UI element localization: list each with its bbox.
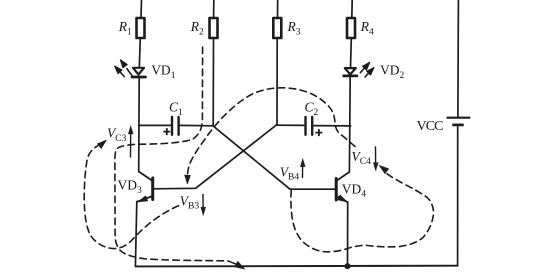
arrow VB4: [302, 164, 304, 178]
resistor R4: [347, 18, 355, 38]
resistor R1: [137, 18, 145, 38]
wire VD4 emitter to bottom rail: [347, 202, 349, 266]
wire R4 to VD2: [350, 38, 353, 68]
battery VCC: [447, 117, 471, 119]
wire bottom rail: [135, 265, 457, 268]
wire branch2 top stub: [213, 0, 215, 18]
LED VD2: [344, 62, 374, 77]
dashed loop inner-left (from below R2 around to bottom rail): [115, 47, 228, 261]
dashed loop outer-left (from VB3 around left side up to VC3): [84, 146, 178, 249]
capacitor C1: [139, 124, 171, 126]
wire VD2 to collector bend: [348, 76, 351, 172]
dashed loop right (from VB4 base around bottom up to VC4): [291, 174, 434, 252]
wire VD3 emitter to bottom rail: [135, 202, 136, 267]
arrow VB3: [202, 195, 204, 210]
resistor R2: [210, 18, 218, 38]
transistor VD4: [336, 172, 349, 202]
wire VCC branch top stub: [457, 0, 460, 117]
junction dot: [345, 263, 351, 269]
wire branch1 top stub: [140, 0, 143, 18]
wire battery to bottom rail: [457, 125, 459, 266]
wire R2 down to C1 node: [212, 38, 214, 126]
wire branch3 top stub: [277, 0, 279, 18]
resistor R3: [273, 18, 281, 38]
svg-text:VCC: VCC: [417, 119, 444, 134]
label plus C1: [163, 128, 170, 135]
wire cross-couple C1 node to VD4 base: [213, 126, 335, 189]
wire R1 to VD1: [139, 38, 140, 68]
arrow VC3: [130, 131, 132, 157]
wire cross-couple C2 node to VD3 base: [154, 125, 277, 189]
dashed arc middle (VC4 over to VD3 base): [188, 88, 356, 175]
label plus C2: [315, 129, 322, 136]
wire branch4 top stub: [351, 0, 353, 18]
transistor VD3: [137, 172, 153, 202]
capacitor C2: [277, 124, 304, 126]
LED VD1: [115, 60, 146, 77]
wire R3 down to C2 node: [276, 38, 278, 125]
wire VD1 to collector bend: [138, 77, 141, 172]
arrow VC4: [375, 147, 377, 164]
